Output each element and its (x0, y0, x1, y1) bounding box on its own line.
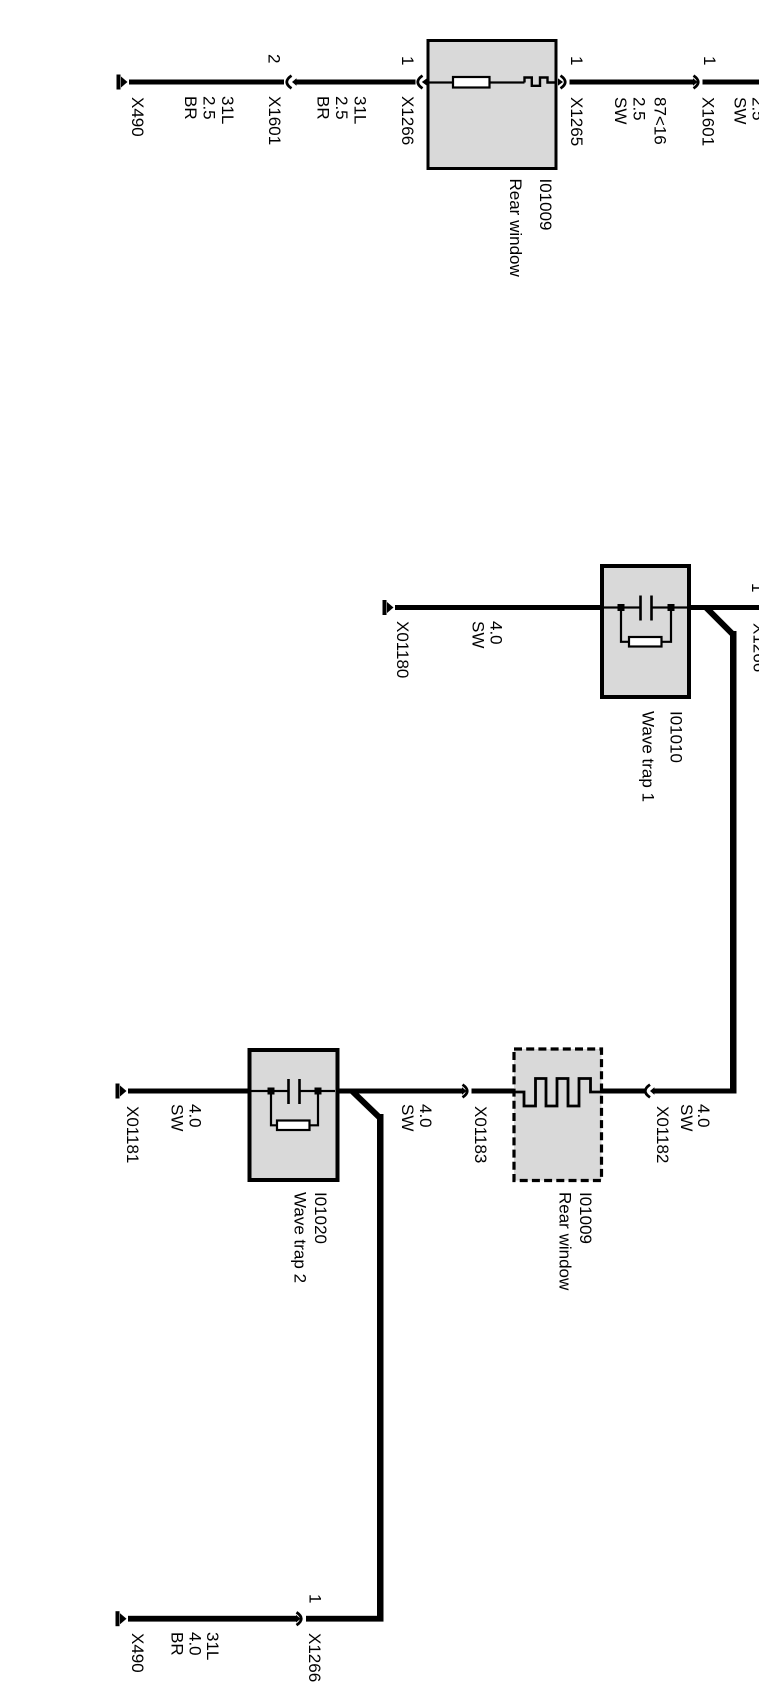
branch wire: vertical drop to lower section (730, 631, 737, 1093)
svg-text:31L: 31L (203, 1632, 222, 1660)
svg-text:X1601: X1601 (699, 97, 718, 146)
svg-text:BR: BR (314, 96, 333, 120)
svg-text:2.5: 2.5 (200, 96, 219, 120)
parallel resistor branch wave trap 2 (271, 1093, 318, 1131)
svg-text:1: 1 (748, 583, 759, 592)
branch wire: vertical drop to bottom wire (377, 1114, 384, 1622)
connector X1266 chevron (bottom) (296, 1612, 301, 1625)
wire: X1601 to right page edge (2.5 SW) (703, 80, 759, 85)
svg-text:X1266: X1266 (398, 96, 417, 145)
thin wire inside I01009 (428, 81, 525, 83)
connector arrow X490 (top left terminator) (117, 75, 128, 90)
svg-text:2.5: 2.5 (630, 97, 649, 121)
svg-text:4.0: 4.0 (416, 1104, 435, 1128)
connector X1601 chevron (pin 1) (693, 76, 698, 89)
labels I01020 Wave trap 2 (291, 1192, 331, 1283)
labels I01009 Rear window (top box) (506, 179, 555, 278)
labels I01010 Wave trap 1 (639, 711, 686, 802)
wire: X01181 to wave trap 2 (4.0 SW) (128, 1089, 251, 1094)
svg-text:4.0: 4.0 (487, 621, 506, 645)
connector arrow X490 (bottom left terminator) (116, 1611, 127, 1626)
wire value label 2.5 SW (right edge) (731, 97, 759, 124)
wire: X1266 to bottom corner junction (306, 1616, 384, 1622)
wire value label 31L 2.5 BR (left) (181, 96, 237, 124)
connector X01183 chevron (462, 1085, 467, 1098)
svg-text:BR: BR (168, 1632, 187, 1656)
wire: X490 to connector X1601 (31L 2.5 BR) (129, 80, 284, 85)
svg-text:2: 2 (265, 54, 284, 63)
capacitor plates inside wave trap 1 (639, 596, 653, 621)
connector X01182 chevron (645, 1085, 654, 1098)
connector arrow X01180 (middle left terminator) (383, 600, 394, 615)
component box I01009 Rear window (dashed, antenna element) (514, 1049, 602, 1181)
svg-text:4.0: 4.0 (186, 1632, 205, 1656)
svg-text:I01020: I01020 (311, 1192, 330, 1244)
branch wire: diagonal from middle wire down (706, 608, 733, 635)
svg-text:X490: X490 (128, 1633, 147, 1673)
svg-text:X490: X490 (128, 97, 147, 137)
svg-text:4.0: 4.0 (186, 1104, 205, 1128)
svg-text:I01010: I01010 (667, 711, 686, 763)
svg-text:1: 1 (398, 56, 417, 65)
component box I01020 Wave trap 2 (250, 1050, 338, 1180)
connector X1265 chevron at I01009 box edge (558, 76, 565, 89)
svg-text:Wave trap 2: Wave trap 2 (291, 1192, 310, 1283)
svg-text:X01181: X01181 (123, 1106, 142, 1163)
parallel resistor branch wave trap 1 (621, 609, 671, 647)
svg-text:X1601: X1601 (265, 96, 284, 145)
capacitor plates inside wave trap 2 (287, 1079, 301, 1104)
svg-text:2.5: 2.5 (332, 96, 351, 120)
svg-text:31L: 31L (218, 96, 237, 124)
svg-text:Wave trap 1: Wave trap 1 (639, 711, 658, 802)
svg-text:X01182: X01182 (653, 1106, 672, 1163)
svg-text:Rear window: Rear window (556, 1192, 575, 1291)
wire value label 31L 2.5 BR (second) (314, 96, 370, 124)
svg-text:1: 1 (567, 56, 586, 65)
svg-text:X1266: X1266 (305, 1633, 324, 1682)
wire: X01183 to rear window element (472, 1089, 515, 1094)
wire value label 31L 4.0 BR (168, 1632, 223, 1660)
wire value label 4.0 SW (middle) (469, 621, 506, 648)
svg-text:BR: BR (181, 96, 200, 120)
connector arrow X01181 (lower left terminator) (116, 1084, 127, 1099)
svg-text:I01009: I01009 (576, 1192, 595, 1244)
labels I01009 Rear window (dashed box) (556, 1192, 596, 1291)
resistor inside I01009 (453, 77, 490, 88)
svg-text:31L: 31L (351, 96, 370, 124)
wire value label 87<16 2.5 SW (611, 97, 670, 145)
wire: X01182 to corner junction (654, 1089, 737, 1094)
svg-text:SW: SW (168, 1104, 187, 1131)
wire: rear window box to X01182 (602, 1089, 645, 1094)
svg-text:1: 1 (700, 56, 719, 65)
connector X1266 chevron at I01009 box edge (418, 76, 427, 89)
wire: wave trap 1 to right page edge (689, 605, 759, 610)
svg-text:X01183: X01183 (471, 1106, 490, 1163)
svg-text:I01009: I01009 (536, 179, 555, 231)
branch wire: diagonal from lower wire down (352, 1091, 380, 1118)
svg-text:SW: SW (731, 97, 750, 124)
junction dots wave trap 2 (268, 1088, 322, 1095)
thin wires inside wave trap 1 (604, 606, 688, 608)
wire: X1601 to X1266 (31L 2.5 BR) (292, 78, 416, 86)
wire: X01180 to wave trap 1 (4.0 SW) (395, 605, 602, 610)
svg-text:Rear window: Rear window (506, 179, 525, 278)
svg-text:SW: SW (469, 621, 488, 648)
wire: X490 to X1266 (31L 4.0 BR) (128, 1616, 296, 1622)
heating element meander inside rear window box (514, 1079, 602, 1107)
svg-text:X1265: X1265 (567, 97, 586, 146)
wire: X1265 to X1601 (87<16 2.5 SW) (570, 80, 694, 85)
junction dots wave trap 1 (618, 604, 675, 611)
svg-text:SW: SW (611, 97, 630, 124)
thin wires inside wave trap 2 (252, 1090, 336, 1092)
component box I01009 Rear window (defogger element) (428, 41, 556, 169)
svg-text:87<16: 87<16 (651, 97, 670, 145)
svg-text:X1266: X1266 (750, 623, 759, 672)
svg-text:SW: SW (398, 1104, 417, 1131)
svg-text:1: 1 (306, 1594, 325, 1603)
thermal fuse element inside I01009 (525, 78, 557, 86)
connector X1601 chevron (pin 2) (287, 76, 292, 89)
wire: wave trap 2 to X01183 (4.0 SW) (338, 1089, 463, 1094)
wire value label 4.0 SW (after branch) (398, 1104, 435, 1131)
svg-text:X01180: X01180 (393, 621, 412, 678)
svg-text:SW: SW (677, 1104, 696, 1131)
wire value label 4.0 SW (lower left) (168, 1104, 205, 1131)
wire value label 4.0 SW (lower right) (677, 1104, 713, 1131)
component box I01010 Wave trap 1 (602, 566, 689, 697)
